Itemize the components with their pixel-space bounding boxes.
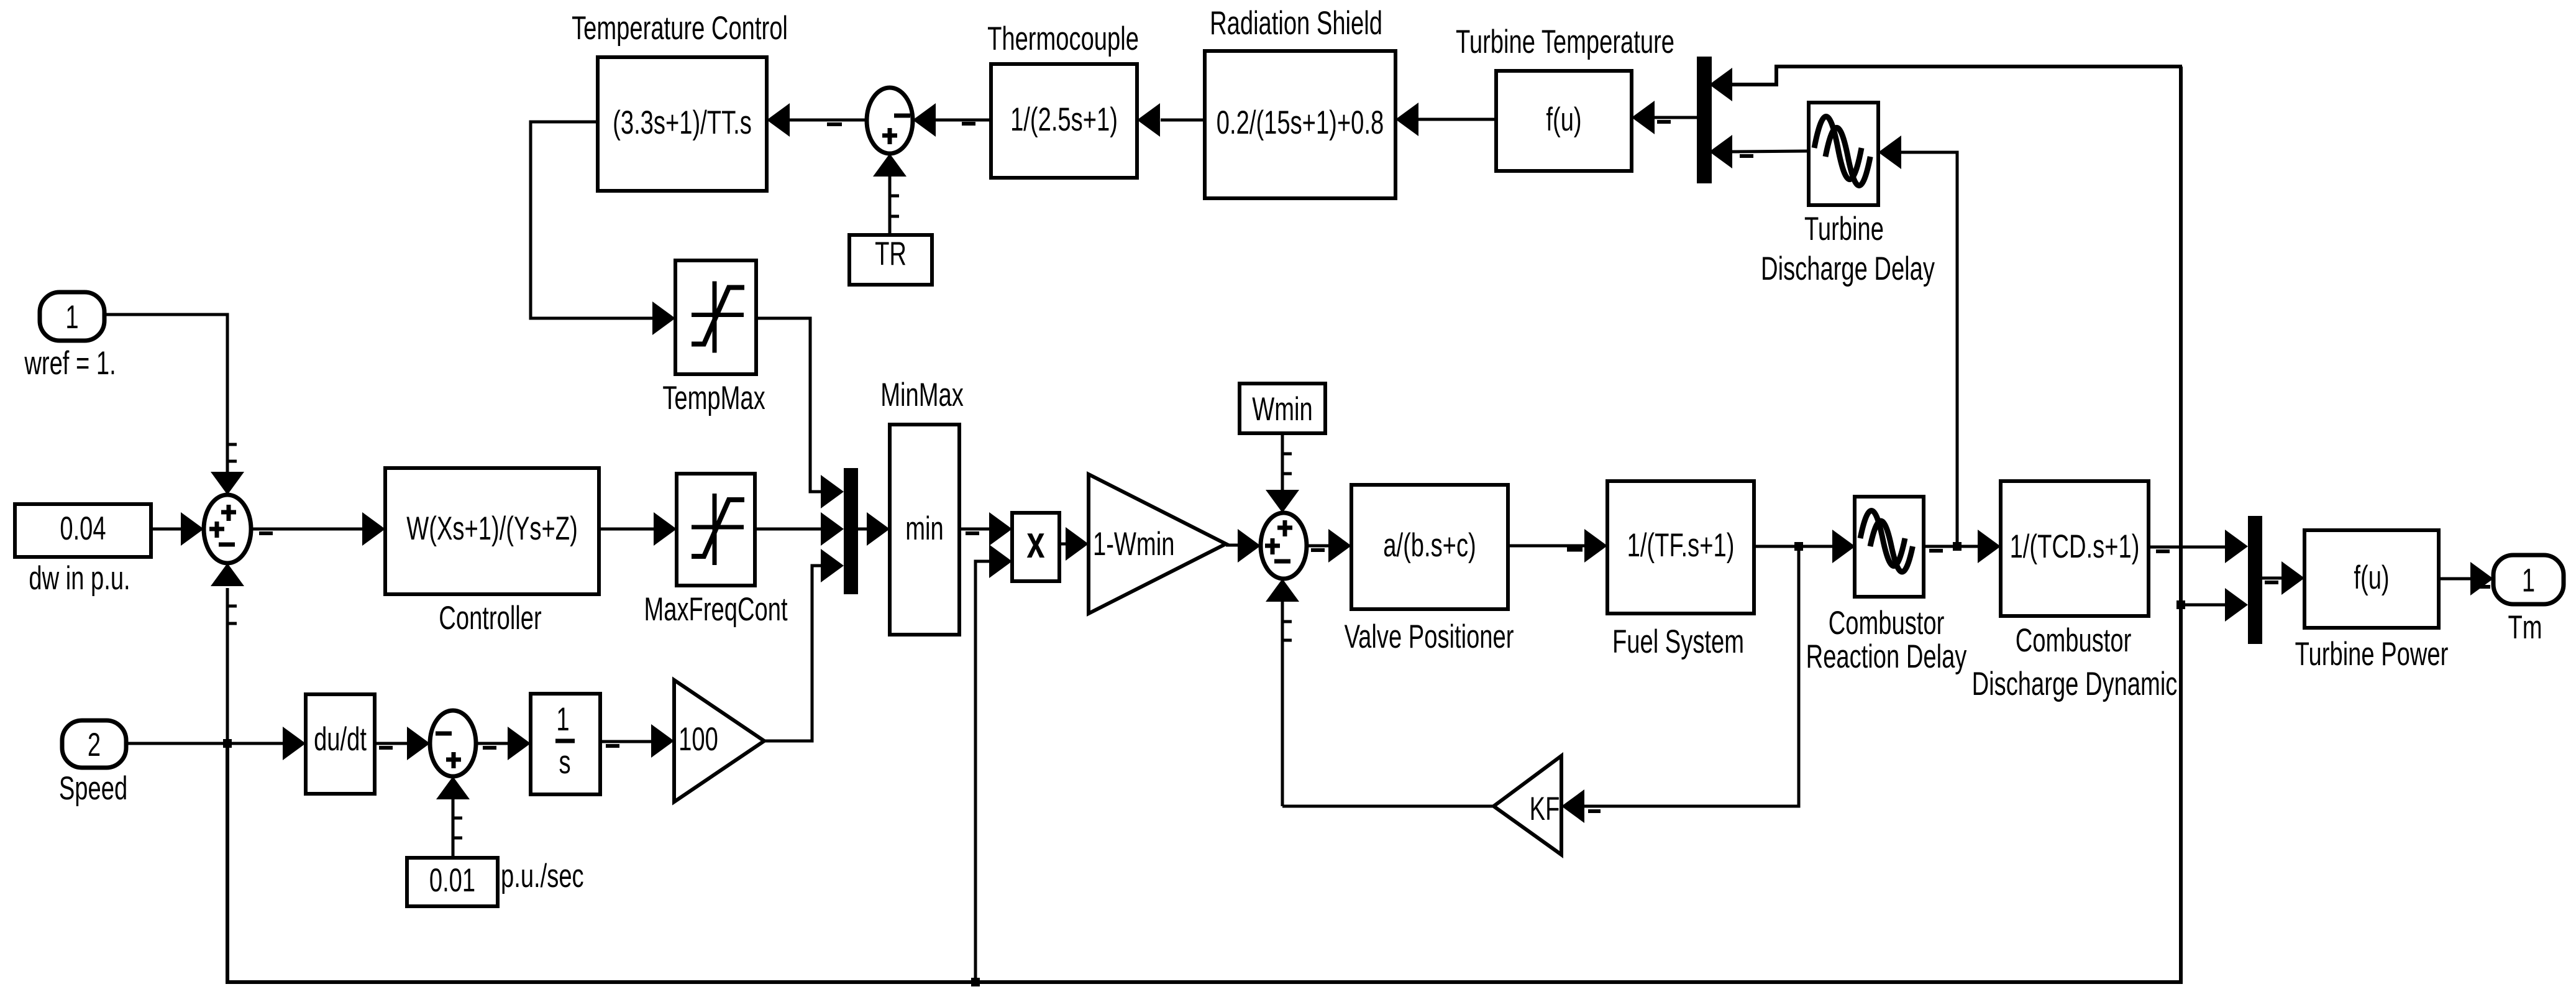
- label TempMax: [662, 379, 765, 416]
- svg-text:Valve Positioner: Valve Positioner: [1345, 618, 1514, 655]
- block Turbine Discharge Delay: [1809, 103, 1878, 205]
- junction fuel tap to KF: [1794, 542, 1803, 551]
- wire fuel tap up to Turbine Discharge Delay: [1901, 152, 1957, 546]
- svg-text:Turbine: Turbine: [1804, 210, 1884, 247]
- wire Controller to MaxFreqCont: [599, 528, 654, 531]
- input port 2: [62, 720, 126, 768]
- gain 1-Wmin: [1089, 474, 1226, 614]
- arrow gain 100 into mux: [821, 549, 844, 582]
- block Combustor Reaction Delay: [1855, 497, 1924, 597]
- svg-text:2: 2: [88, 726, 101, 763]
- output port 1 Tm: [2493, 555, 2564, 604]
- arrow into valve sum: [1238, 529, 1261, 563]
- arrow into MaxFreqCont: [654, 512, 677, 546]
- arrow into Valve Positioner: [1328, 529, 1351, 563]
- svg-text:f(u): f(u): [2354, 559, 2389, 596]
- junction speed tap: [223, 739, 232, 748]
- svg-text:Thermocouple: Thermocouple: [987, 20, 1139, 57]
- label Tm: [2508, 609, 2542, 646]
- block constant Wmin: [1240, 384, 1325, 433]
- svg-text:Controller: Controller: [439, 599, 541, 637]
- svg-text:Temperature Control: Temperature Control: [572, 9, 788, 47]
- junction speed tap at bottom line: [971, 978, 980, 986]
- label Reaction Delay: [1806, 638, 1967, 675]
- svg-text:1/(2.5s+1): 1/(2.5s+1): [1010, 101, 1118, 138]
- svg-text:1/(TF.s+1): 1/(TF.s+1): [1627, 526, 1735, 564]
- arrow into Thermocouple: [1137, 103, 1160, 137]
- arrow MaxFreqCont into mux: [821, 512, 844, 546]
- label Combustor (reaction): [1829, 604, 1945, 641]
- junction speed tap right: [2176, 600, 2185, 609]
- input port 1: [40, 292, 104, 341]
- svg-text:MinMax: MinMax: [880, 376, 964, 413]
- svg-text:Combustor: Combustor: [2016, 622, 2132, 659]
- gain 100: [674, 680, 764, 802]
- svg-text:MaxFreqCont: MaxFreqCont: [644, 591, 787, 628]
- wire speed tap to product: [975, 561, 989, 982]
- svg-text:Combustor: Combustor: [1829, 604, 1945, 641]
- mux MinMax inputs: [844, 468, 858, 594]
- wire mux to Turbine Temperature f(u): [1655, 117, 1697, 122]
- arrow wref into speed sum top: [211, 472, 244, 495]
- arrow into Turbine Discharge Delay: [1878, 136, 1901, 169]
- svg-text:Fuel System: Fuel System: [1612, 623, 1744, 660]
- gain KF: [1494, 756, 1561, 855]
- block integrator 1/s: [531, 694, 600, 794]
- wire Fuel System to Combustor Reaction Delay: [1754, 545, 1832, 548]
- arrow KF into valve sum bottom: [1266, 579, 1299, 602]
- wire mux to MinMax: [858, 528, 867, 531]
- svg-text:0.04: 0.04: [60, 510, 106, 547]
- wire MinMax to product: [959, 529, 989, 533]
- block Controller W(Xs+1)/(Ys+Z): [385, 468, 599, 594]
- arrow into du/dt: [283, 727, 306, 760]
- label p.u./sec: [501, 857, 584, 894]
- wire speed feedback bottom run: [227, 67, 2181, 982]
- wire Turbine Power to output port: [2439, 579, 2490, 587]
- wire integrator to gain 100: [600, 742, 651, 746]
- svg-text:f(u): f(u): [1546, 101, 1581, 138]
- wire Combustor Discharge to output mux: [2149, 547, 2225, 551]
- block MinMax min: [890, 425, 959, 635]
- block Valve Positioner a/(b.s+c): [1351, 485, 1508, 609]
- label Combustor (discharge): [2016, 622, 2132, 659]
- svg-text:1: 1: [65, 298, 78, 336]
- svg-text:x: x: [1026, 517, 1044, 568]
- svg-text:dw in p.u.: dw in p.u.: [29, 559, 130, 597]
- block Temperature Control (3.3s+1)/TT.s: [598, 57, 767, 191]
- label Controller: [439, 599, 541, 637]
- arrow into Turbine Power: [2281, 561, 2304, 595]
- block constant TR: [849, 235, 932, 285]
- block Thermocouple 1/(2.5s+1): [991, 64, 1137, 178]
- block Combustor Discharge Dynamic 1/(TCD.s+1): [2001, 481, 2149, 616]
- wire accel sum to integrator: [476, 743, 508, 748]
- svg-text:1: 1: [2522, 561, 2535, 599]
- svg-text:du/dt: du/dt: [314, 720, 367, 758]
- block Radiation Shield 0.2/(15s+1)+0.8: [1205, 51, 1395, 198]
- wire MaxFreqCont to mux: [755, 528, 821, 531]
- wire Thermocouple to temp sum: [936, 120, 991, 124]
- svg-text:Speed: Speed: [59, 770, 127, 807]
- arrow into Temperature Control: [767, 103, 790, 137]
- arrow 0.01 into accel sum: [436, 776, 470, 799]
- block product X: [1012, 513, 1059, 581]
- label wref = 1.: [24, 344, 116, 382]
- junction tap to Turbine Discharge Delay: [1953, 542, 1962, 551]
- arrow into Combustor Discharge Dynamic: [1978, 530, 2001, 563]
- block MaxFreqCont saturation: [677, 474, 755, 586]
- arrow into KF: [1561, 789, 1601, 823]
- arrow into gain 1-Wmin: [1066, 527, 1089, 561]
- arrow into output mux top: [2225, 530, 2248, 563]
- arrow speed into mux top: [1709, 68, 1732, 101]
- wire TR to temp sum: [890, 177, 899, 235]
- arrow into temp sum: [913, 103, 936, 137]
- wire speed sum to Controller: [251, 529, 362, 533]
- svg-text:wref = 1.: wref = 1.: [24, 344, 116, 382]
- svg-text:Turbine Power: Turbine Power: [2295, 635, 2449, 673]
- wire gain 1-Wmin to valve sum: [1226, 544, 1239, 547]
- sum temperature error: [867, 88, 913, 154]
- arrow into TempMax: [652, 301, 675, 335]
- sum acceleration: [430, 710, 476, 776]
- arrow into accel sum: [407, 727, 430, 760]
- arrow into integrator: [508, 727, 531, 760]
- label MaxFreqCont: [644, 591, 787, 628]
- sum valve demand: [1261, 513, 1307, 579]
- wire speed feedback top run: [1732, 67, 2182, 85]
- svg-text:0.2/(15s+1)+0.8: 0.2/(15s+1)+0.8: [1217, 104, 1384, 141]
- arrow 0.04 into speed sum: [181, 512, 204, 546]
- svg-text:p.u./sec: p.u./sec: [501, 857, 584, 894]
- label Turbine: [1804, 210, 1884, 247]
- block TempMax saturation: [675, 260, 756, 374]
- block derivative du/dt: [306, 694, 375, 794]
- block Fuel System 1/(TF.s+1): [1607, 481, 1754, 614]
- arrow into mux bottom: [1709, 135, 1732, 168]
- wire Speed to du/dt: [126, 742, 283, 745]
- wire speed feedback into speed sum bottom: [227, 588, 237, 743]
- label dw in p.u.: [29, 559, 130, 597]
- svg-text:Discharge Dynamic: Discharge Dynamic: [1972, 665, 2178, 702]
- wire product to gain 1-Wmin: [1059, 543, 1066, 546]
- label Radiation Shield: [1210, 4, 1382, 42]
- mux Turbine Power inputs: [2248, 516, 2262, 644]
- arrow into Radiation Shield: [1395, 103, 1418, 136]
- wire 0.01 to accel sum: [453, 799, 462, 858]
- arrow into Turbine Temperature f(u): [1632, 101, 1655, 134]
- svg-text:min: min: [905, 510, 943, 547]
- wire Radiation Shield to Thermocouple: [1161, 119, 1205, 122]
- arrow into gain 100: [651, 724, 674, 758]
- arrow speed into speed sum bottom: [211, 563, 244, 586]
- label Temperature Control: [572, 9, 788, 47]
- wire temp sum to Temperature Control: [790, 120, 867, 124]
- svg-text:Turbine Temperature: Turbine Temperature: [1456, 23, 1674, 60]
- arrow into output port Tm: [2470, 562, 2493, 595]
- svg-text:1: 1: [556, 701, 569, 738]
- wire KF to valve sum: [1282, 805, 1494, 808]
- svg-text:Reaction Delay: Reaction Delay: [1806, 638, 1967, 675]
- svg-text:TempMax: TempMax: [662, 379, 765, 416]
- arrow into Fuel System: [1584, 529, 1607, 563]
- svg-text:100: 100: [678, 720, 718, 758]
- arrow speed into product: [989, 545, 1012, 578]
- block constant 0.01: [407, 858, 498, 906]
- wire Combustor Reaction Delay to Combustor Discharge: [1924, 546, 1978, 551]
- label Fuel System: [1612, 623, 1744, 660]
- wire output mux to Turbine Power: [2262, 578, 2281, 582]
- label Thermocouple: [987, 20, 1139, 57]
- svg-text:0.01: 0.01: [429, 862, 475, 899]
- wire TempMax to mux: [756, 318, 821, 492]
- svg-text:Tm: Tm: [2508, 609, 2542, 646]
- svg-text:s: s: [559, 743, 570, 781]
- svg-text:KF: KF: [1530, 790, 1560, 827]
- svg-text:(3.3s+1)/TT.s: (3.3s+1)/TT.s: [613, 104, 752, 141]
- wire valve sum to Valve Positioner: [1307, 546, 1328, 550]
- arrow Wmin into valve sum top: [1266, 490, 1299, 513]
- svg-text:a/(b.s+c): a/(b.s+c): [1383, 526, 1476, 564]
- wire du/dt to accel sum: [375, 743, 407, 748]
- block Turbine Power f(u): [2304, 530, 2439, 628]
- label Turbine Temperature: [1456, 23, 1674, 60]
- wire Valve Positioner to Fuel System: [1508, 546, 1584, 549]
- wire KF feedback into valve sum bottom: [1282, 602, 1292, 806]
- arrow into MinMax: [867, 512, 890, 546]
- wire speed tap to output mux: [2181, 604, 2225, 607]
- wire Turbine Discharge Delay to mux: [1732, 151, 1809, 156]
- label Discharge Dynamic: [1972, 665, 2178, 702]
- block constant 0.04: [15, 504, 151, 557]
- label Turbine Power: [2295, 635, 2449, 673]
- arrow speed into output mux: [2225, 588, 2248, 622]
- wire gain 100 to mux: [764, 566, 821, 741]
- svg-text:1/(TCD.s+1): 1/(TCD.s+1): [2010, 528, 2140, 565]
- wire Turbine Temperature f(u) to Radiation Shield: [1418, 118, 1496, 121]
- wire Temperature Control to TempMax: [531, 122, 652, 318]
- svg-text:Discharge Delay: Discharge Delay: [1761, 250, 1935, 287]
- wire 0.04 to speed sum: [151, 528, 183, 531]
- arrow into Combustor Reaction Delay: [1832, 530, 1855, 563]
- svg-text:TR: TR: [875, 235, 907, 272]
- label Speed: [59, 770, 127, 807]
- block Turbine Temperature f(u): [1496, 71, 1632, 171]
- wire fuel tap down to KF: [1584, 546, 1799, 806]
- arrow TR into temp sum: [873, 154, 907, 177]
- label Valve Positioner: [1345, 618, 1514, 655]
- label Discharge Delay: [1761, 250, 1935, 287]
- arrow into product: [989, 512, 1012, 546]
- label MinMax: [880, 376, 964, 413]
- arrow into Controller: [362, 512, 385, 546]
- svg-text:1-Wmin: 1-Wmin: [1093, 525, 1174, 563]
- sum speed error: [204, 495, 251, 563]
- svg-text:Wmin: Wmin: [1252, 390, 1312, 428]
- svg-text:Radiation Shield: Radiation Shield: [1210, 4, 1382, 42]
- wire Wmin to valve sum: [1282, 433, 1292, 490]
- arrow TempMax into mux: [821, 475, 844, 508]
- svg-text:W(Xs+1)/(Ys+Z): W(Xs+1)/(Ys+Z): [406, 510, 578, 547]
- mux Turbine Temperature inputs: [1697, 57, 1712, 183]
- wire wref to speed sum: [104, 315, 237, 474]
